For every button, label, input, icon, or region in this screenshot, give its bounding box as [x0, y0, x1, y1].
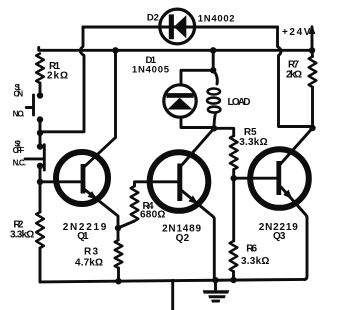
transistor Q2 base bar: [177, 164, 182, 202]
wire riser D2-right down with hop over rail2: [278, 27, 313, 127]
transistor Q1 2N2219 circle: [56, 152, 108, 204]
switch S2 (N.C. pushbutton) actuator bar: [25, 145, 44, 170]
resistor R7 2k: [309, 57, 317, 88]
wire LOAD bottom lead: [214, 113, 216, 128]
switch S2 terminal dots: [37, 143, 43, 149]
svg-text:LOAD: LOAD: [228, 97, 251, 108]
wire S1 bottom to junction to S2: [39, 120, 42, 147]
wire LOAD top lead: [213, 70, 217, 84]
wire S2 bottom down to Q1 base junction and R2: [39, 166, 42, 212]
transistor Q2 2N1489 circle: [150, 152, 209, 211]
node: junction dot R3 / bottom rail: [115, 278, 121, 284]
wire Q2 collector diagonal: [181, 128, 215, 166]
svg-text:R6: R6: [246, 244, 257, 255]
wire D1 bottom to junction: [181, 118, 214, 128]
resistor R5 3.3k: [230, 136, 238, 170]
wire Q1 emitter to R3 to rail: [84, 189, 118, 240]
node: junction dot Q1 base: [37, 179, 43, 185]
wire Q3 base from R5/R6 column: [232, 170, 235, 242]
wire riser rail2 to Q1 collector: [84, 50, 116, 167]
wire R4 bottom lead to Q1 emitter junction: [118, 221, 135, 228]
svg-text:2kΩ: 2kΩ: [47, 71, 68, 82]
svg-text:ON: ON: [14, 90, 24, 99]
svg-text:3.3kΩ: 3.3kΩ: [241, 256, 269, 267]
wire R6 bottom lead: [232, 272, 235, 281]
svg-text:680Ω: 680Ω: [140, 210, 165, 221]
wire R4 top lead to Q2 base: [135, 182, 178, 186]
diode D2 1N4002 circle: [160, 9, 195, 44]
svg-text:1N4005: 1N4005: [132, 64, 170, 75]
svg-text:D2: D2: [147, 13, 159, 24]
svg-text:N.O.: N.O.: [13, 109, 25, 118]
node: junction dot rail2 / D1-LOAD riser: [210, 47, 216, 53]
svg-text:2kΩ: 2kΩ: [286, 70, 302, 81]
switch S1 terminal dots: [37, 92, 43, 98]
svg-text:+24V: +24V: [282, 27, 311, 38]
wire rail2 down to D1/LOAD top stub: [212, 50, 215, 70]
node: junction dot S1/S2 feedback: [37, 130, 43, 136]
node: junction dot Q2 emitter / ground: [212, 277, 218, 283]
resistor R3 4.7k: [115, 240, 123, 268]
transistor Q3 emitter arrowhead: [283, 190, 292, 200]
inductor LOAD coil: [208, 89, 220, 95]
transistor Q3 2N2219 circle: [250, 149, 309, 208]
node: junction dot D1 top stub: [210, 67, 216, 73]
node: junction dot rail2 / +24V / R7: [309, 47, 315, 53]
wire Q3 base horizontal: [234, 177, 277, 180]
wire junction to R5: [214, 128, 234, 136]
diode D1 1N4005 circle: [164, 85, 196, 117]
wire R1 bottom lead to S1: [39, 83, 42, 96]
+24V arrowhead: [309, 25, 316, 35]
node: junction dot R6 / bottom rail: [230, 277, 236, 283]
resistor R1 2k: [36, 54, 44, 84]
wire riser from rail1 down to S1/S2 junction with hop over rail2: [40, 27, 84, 132]
transistor Q1 emitter arrowhead: [88, 191, 98, 200]
resistor R2 3.3k: [36, 212, 44, 248]
wire R7 top lead: [311, 50, 314, 56]
wire bottom rail: [40, 279, 305, 282]
svg-text:OFF: OFF: [13, 146, 25, 155]
node: junction dot D1/LOAD bottom / Q2 collector / R5: [211, 125, 217, 131]
diode D1 triangle: [168, 98, 193, 110]
switch S1 (N.O. pushbutton) actuator bar: [26, 95, 33, 115]
svg-text:N.C.: N.C.: [13, 158, 27, 167]
node: junction dot Q3 base: [231, 175, 237, 181]
svg-text:4.7kΩ: 4.7kΩ: [75, 258, 103, 269]
wire top rail 1 through D2: [83, 26, 278, 29]
wire Q2 emitter down to rail: [181, 190, 214, 280]
transistor Q3 base bar: [276, 161, 281, 195]
svg-text:R3: R3: [84, 247, 98, 258]
svg-text:Q1: Q1: [77, 231, 89, 242]
wire R7 bottom lead: [311, 87, 314, 128]
svg-text:3.3kΩ: 3.3kΩ: [10, 230, 34, 241]
wire Q3 collector diagonal: [280, 128, 313, 165]
node: junction dot rail2 / Q1 collector riser: [112, 47, 118, 53]
transistor Q1 base bar: [81, 164, 86, 194]
diode D1 cathode bar: [167, 93, 194, 98]
svg-text:3.3kΩ: 3.3kΩ: [239, 137, 267, 148]
wire ground stub below rail: [214, 280, 217, 291]
wire Q1 base: [40, 180, 81, 183]
svg-text:Q3: Q3: [273, 231, 286, 242]
node: junction dot Q1 emitter / R4: [115, 225, 121, 231]
ground symbol: [203, 290, 229, 293]
wire stub going off bottom edge: [171, 280, 174, 310]
transistor Q2 emitter arrowhead: [188, 196, 198, 205]
resistor R4 680: [131, 186, 139, 221]
svg-text:Q2: Q2: [176, 233, 190, 244]
node: junction dot R7 bottom / Q3 collector: [309, 125, 315, 131]
wire R3 bottom lead: [117, 268, 120, 281]
wire +24V arrow stem: [311, 27, 314, 50]
diode D2 triangle: [174, 15, 186, 38]
resistor R6 3.3k: [230, 241, 238, 272]
diode D2 cathode bar: [169, 14, 174, 39]
wire R2 bottom to bottom rail: [39, 248, 42, 282]
svg-text:1N4002: 1N4002: [198, 13, 235, 24]
wire Q3 emitter down to rail right end: [281, 187, 307, 279]
wire rail 2 (+24V rail): [39, 47, 312, 50]
wire stub D1 top: [181, 70, 213, 85]
